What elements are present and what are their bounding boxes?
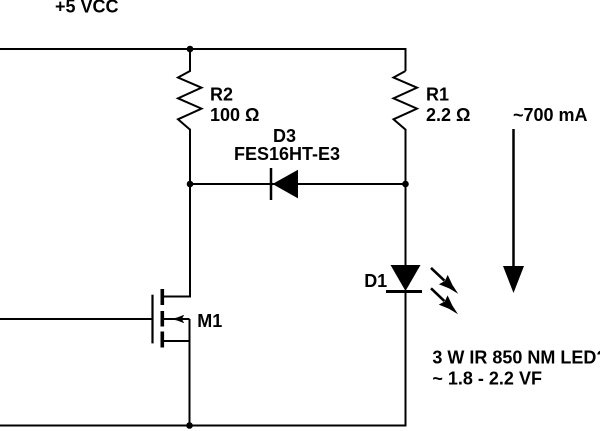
current arrow ~700 mA	[503, 129, 524, 293]
svg-text:M1: M1	[197, 311, 222, 331]
svg-text:R1: R1	[426, 85, 449, 105]
LED D1 light arrow upper	[431, 268, 458, 294]
svg-text:3 W IR 850 NM LED?: 3 W IR 850 NM LED?	[432, 347, 600, 367]
svg-text:R2: R2	[210, 85, 233, 105]
wire LED anode lead	[405, 184, 407, 266]
resistor R1	[394, 71, 418, 184]
wire bottom rail	[0, 425, 407, 427]
svg-text:100 Ω: 100 Ω	[210, 105, 259, 125]
svg-text:+5 VCC: +5 VCC	[55, 0, 119, 17]
node +5 VCC label	[55, 0, 119, 17]
junction top rail to R2	[187, 46, 194, 53]
wire M1 source vertical	[189, 319, 191, 426]
wire diode net horizontal	[190, 183, 406, 185]
label D3	[273, 126, 296, 146]
resistor R2	[178, 49, 202, 184]
svg-text:D3: D3	[273, 126, 296, 146]
wire LED cathode lead	[405, 292, 407, 427]
wire M1 drain vertical	[164, 184, 190, 297]
svg-text:2.2 Ω: 2.2 Ω	[426, 105, 470, 125]
diode D3	[271, 168, 298, 200]
wire R1 top lead from rail corner	[405, 48, 407, 71]
junction R1 bottom node	[402, 181, 409, 188]
svg-text:D1: D1	[364, 271, 387, 291]
wire gate lead	[0, 318, 152, 320]
label D3 part number FES16HT-E3	[234, 144, 340, 164]
svg-text:FES16HT-E3: FES16HT-E3	[234, 144, 340, 164]
label ~700 mA	[513, 105, 588, 125]
transistor M1 (N-MOSFET)	[153, 289, 190, 348]
label R1 value	[426, 85, 470, 125]
junction R2 bottom node	[187, 181, 194, 188]
svg-text:~ 1.8 - 2.2 VF: ~ 1.8 - 2.2 VF	[432, 369, 542, 389]
junction bottom rail to M1 source	[186, 422, 193, 429]
label R2 value	[210, 85, 259, 125]
svg-text:~700 mA: ~700 mA	[513, 105, 588, 125]
LED D1 light arrow lower	[431, 288, 458, 314]
label M1	[197, 311, 222, 331]
wire top +5V rail	[0, 48, 407, 50]
LED D1	[386, 265, 422, 292]
label LED question	[432, 347, 600, 367]
label D1	[364, 271, 387, 291]
label LED forward voltage	[432, 369, 542, 389]
